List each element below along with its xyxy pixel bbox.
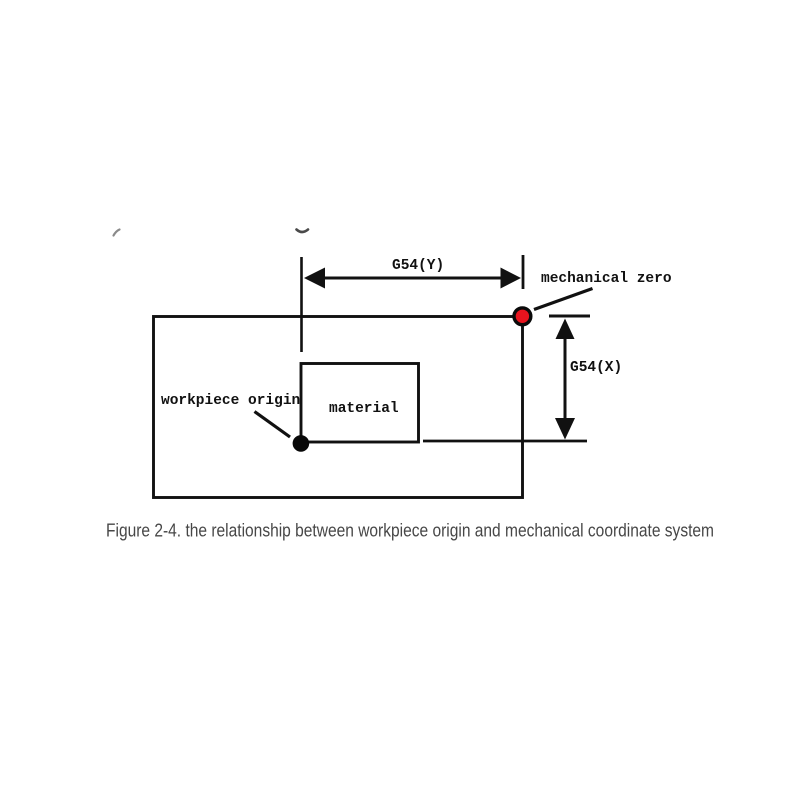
G54(X) top tick (horizontal) bbox=[549, 315, 590, 318]
svg-text:G54(X): G54(X) bbox=[570, 360, 622, 376]
svg-text:G54(Y): G54(Y) bbox=[392, 258, 444, 274]
G54(Y) dimension double arrow bbox=[304, 268, 521, 289]
reference line right of material box bbox=[423, 440, 587, 443]
G54(X) dimension double arrow (vertical) bbox=[555, 319, 575, 440]
svg-text:workpiece origin: workpiece origin bbox=[161, 393, 300, 409]
svg-text:material: material bbox=[329, 401, 399, 417]
cropped text descender mark left bbox=[114, 230, 120, 236]
machine coordinate big rectangle bbox=[154, 317, 523, 498]
leader line mechanical zero bbox=[534, 289, 593, 310]
leader line workpiece origin bbox=[255, 412, 291, 438]
material box bbox=[301, 364, 419, 443]
svg-text:Figure 2-4. the relationship b: Figure 2-4. the relationship between wor… bbox=[106, 521, 714, 541]
svg-text:mechanical zero: mechanical zero bbox=[541, 271, 672, 287]
dimension extension tick left (vertical) bbox=[300, 257, 303, 352]
dimension extension tick right (vertical) bbox=[522, 255, 525, 289]
mechanical zero red dot bbox=[514, 308, 531, 325]
cropped text descender mark right bbox=[297, 230, 309, 233]
workpiece origin dot bbox=[293, 435, 310, 452]
